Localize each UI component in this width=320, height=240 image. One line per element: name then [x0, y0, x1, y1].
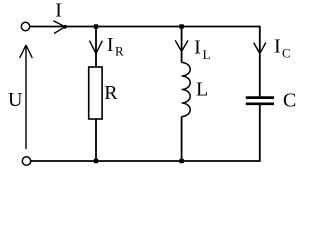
inductor L [182, 63, 191, 117]
wire: L branch top [181, 27, 183, 63]
current arrow I_L [175, 40, 188, 51]
node: top junction R [94, 24, 98, 28]
arrow I (current into circuit) [53, 21, 65, 34]
capacitor C plate bottom [246, 102, 274, 105]
node: bottom junction L [179, 159, 183, 163]
wire: capacitor branch top [259, 26, 261, 97]
svg-text:I: I [107, 34, 114, 56]
current arrow I_C [254, 43, 266, 54]
svg-text:L: L [203, 47, 211, 62]
resistor R [89, 67, 102, 119]
wire bottom [31, 160, 260, 162]
node: top junction L [179, 24, 183, 28]
wire: capacitor branch bottom [259, 105, 261, 162]
terminal bottom-left [22, 157, 30, 165]
wire: L branch bottom [181, 117, 183, 162]
voltage arrow U [20, 45, 33, 149]
terminal top-left [21, 22, 29, 30]
svg-text:I: I [194, 36, 201, 58]
svg-text:R: R [104, 82, 118, 104]
wire: R branch top [95, 27, 97, 68]
svg-text:U: U [8, 89, 23, 111]
svg-text:I: I [55, 0, 62, 22]
svg-text:C: C [283, 90, 296, 112]
wire: R branch bottom [95, 119, 97, 161]
wire top [30, 26, 260, 28]
capacitor C plate top [246, 96, 274, 99]
svg-text:C: C [282, 46, 291, 61]
svg-text:R: R [115, 44, 124, 59]
node: bottom junction R [94, 159, 98, 163]
current arrow I_R [90, 41, 103, 54]
svg-text:L: L [196, 79, 208, 101]
svg-text:I: I [274, 36, 281, 58]
